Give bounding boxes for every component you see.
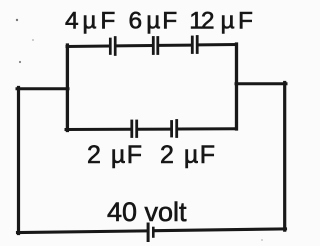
wire: top branch segment, C2 to capacitor C3	[161, 44, 190, 47]
svg-text:2 µF: 2 µF	[87, 141, 144, 169]
wire: inner box left edge (node A vertical)	[66, 45, 69, 131]
wire: bottom branch segment, C4 to capacitor C5	[139, 128, 170, 131]
wire: bottom segment, battery B1 to right corner	[155, 229, 285, 231]
wire: top branch segment, C3 to node B	[200, 43, 237, 46]
wire: top branch segment, C1 to capacitor C2	[117, 44, 152, 47]
svg-text:12µF: 12µF	[189, 8, 253, 35]
svg-text:6µF: 6µF	[129, 8, 178, 35]
wire: outer loop right edge	[283, 83, 286, 231]
capacitor C2 (6 uF) plates	[153, 38, 158, 54]
svg-text:4µF: 4µF	[65, 8, 119, 35]
wire: bottom branch segment, node A to capacitor C4	[66, 128, 130, 131]
wire: inner box right edge (node B vertical)	[235, 44, 238, 129]
svg-text:40 volt: 40 volt	[107, 197, 187, 227]
capacitor C3 (12 uF) plates	[192, 37, 197, 53]
wire: top branch segment, node A to capacitor C1	[67, 45, 109, 49]
capacitor C4 (2 uF) plates	[132, 121, 137, 137]
wire: outer loop left edge	[17, 88, 20, 234]
wire: right connection from node B to outer loop	[236, 82, 286, 85]
battery B1 (40 volt) plates	[148, 224, 153, 241]
wire: left connection from outer loop to node A	[17, 87, 68, 90]
wire: bottom segment, left corner to battery B1	[18, 231, 147, 233]
capacitor C5 (2 uF) plates	[172, 121, 177, 137]
wire: bottom branch segment, C5 to node B	[179, 127, 237, 130]
capacitor C1 (4 uF) plates	[110, 38, 115, 55]
svg-text:2 µF: 2 µF	[160, 141, 217, 169]
